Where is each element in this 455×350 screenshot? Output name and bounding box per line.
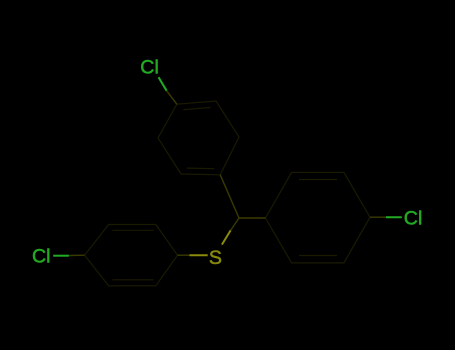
svg-text:Cl: Cl	[404, 208, 423, 230]
svg-text:S: S	[209, 247, 222, 269]
svg-text:Cl: Cl	[140, 56, 159, 78]
svg-text:Cl: Cl	[32, 245, 51, 267]
